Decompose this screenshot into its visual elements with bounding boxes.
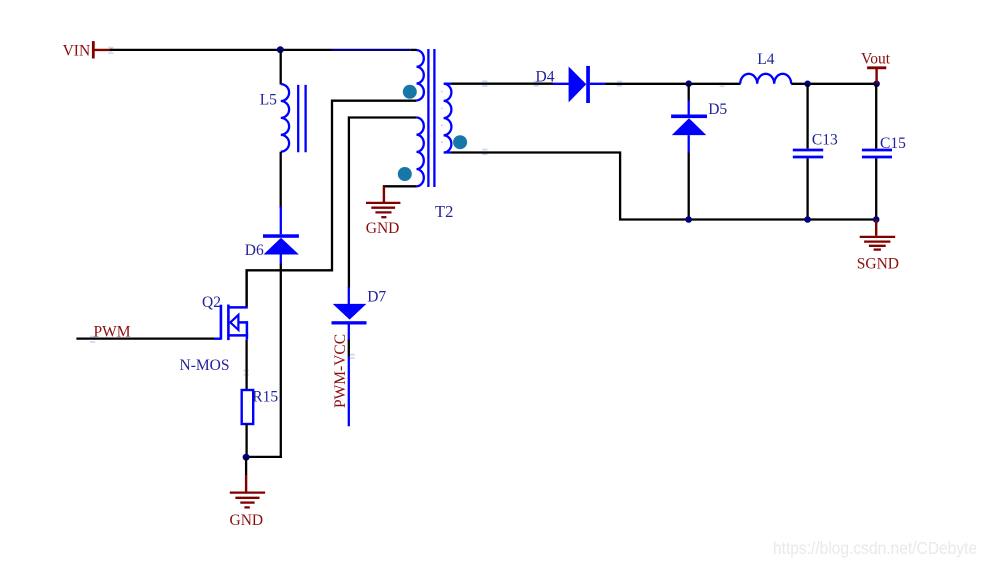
svg-text:R15: R15 bbox=[252, 389, 278, 406]
wire D6 bottom horizontal to junction bbox=[246, 456, 282, 458]
grid marks (faint) bbox=[90, 47, 725, 376]
transformer T2 secondary winding bbox=[444, 84, 452, 153]
svg-text:VIN: VIN bbox=[63, 43, 91, 60]
node Vout junction bbox=[873, 81, 880, 88]
transformer T2 core bbox=[428, 49, 434, 187]
svg-text:Q2: Q2 bbox=[202, 294, 221, 311]
wire D4 to L4 (top rail) bbox=[605, 83, 740, 85]
wire T2 primary bottom bbox=[247, 101, 417, 307]
diode D6 bbox=[245, 206, 299, 265]
wire node A down to L5 bbox=[280, 50, 282, 85]
svg-text:D5: D5 bbox=[708, 101, 727, 118]
svg-text:L4: L4 bbox=[757, 51, 774, 68]
wire node A to T2 primary top (navy overlay) bbox=[332, 49, 411, 51]
node C13 bottom junction bbox=[804, 216, 811, 223]
T2 aux polarity dot bbox=[398, 167, 412, 181]
wire Q2 drain up bbox=[245, 270, 247, 306]
wire C15 bottom bbox=[875, 158, 877, 219]
svg-text:T2: T2 bbox=[435, 202, 453, 221]
wire C13 bottom bbox=[806, 158, 808, 219]
transistor Q2 N-MOS bbox=[180, 294, 249, 374]
ground GND (aux) bbox=[366, 186, 401, 237]
ground GND (Q2 source) bbox=[230, 457, 266, 529]
wire D5 to bottom rail bbox=[688, 153, 690, 220]
node A junction bbox=[277, 46, 284, 53]
port Vout bbox=[861, 50, 891, 84]
svg-text:GND: GND bbox=[366, 220, 400, 237]
ground SGND bbox=[857, 220, 899, 273]
diode D5 bbox=[671, 84, 727, 153]
net stub PWM-VCC (blue) bbox=[348, 357, 350, 427]
node D5 bottom junction bbox=[685, 216, 692, 223]
wire L4 to Vout bbox=[791, 83, 876, 85]
wire C13 bbox=[806, 84, 808, 149]
wire T2 aux bottom to GND bbox=[383, 185, 417, 187]
transformer T2 primary winding bbox=[417, 50, 424, 100]
node SGND junction bbox=[873, 216, 880, 223]
wire D6 anode down to source node bbox=[280, 264, 282, 458]
node D5 top junction bbox=[685, 80, 692, 87]
svg-text:PWM-VCC: PWM-VCC bbox=[332, 334, 349, 408]
wire L5 to D6 bbox=[280, 152, 282, 208]
T2 secondary polarity dot bbox=[453, 135, 467, 149]
wire to T2 primary top bbox=[411, 49, 417, 51]
svg-text:D6: D6 bbox=[245, 242, 264, 259]
T2 primary polarity dot bbox=[403, 85, 417, 99]
wire PWM to Q2 gate bbox=[76, 337, 215, 339]
resistor R15 bbox=[242, 389, 279, 425]
node C13 top junction bbox=[804, 81, 811, 88]
svg-text:SGND: SGND bbox=[857, 256, 899, 273]
inductor L4 bbox=[740, 51, 791, 84]
svg-text:GND: GND bbox=[230, 512, 264, 529]
wire T2 aux top to D7 bbox=[349, 118, 417, 289]
diode D4 bbox=[536, 66, 606, 103]
transformer T2 aux winding bbox=[417, 118, 424, 187]
svg-text:L5: L5 bbox=[260, 92, 277, 109]
svg-text:Vout: Vout bbox=[861, 50, 891, 67]
svg-text:N-MOS: N-MOS bbox=[180, 357, 230, 374]
port VIN bbox=[63, 41, 112, 60]
svg-text:C15: C15 bbox=[880, 135, 906, 152]
inductor L5 bbox=[260, 84, 306, 152]
capacitor C15 bbox=[862, 135, 906, 157]
wire Q2 source down to R15 bbox=[245, 340, 247, 390]
wire T2 secondary top to D4 bbox=[452, 83, 554, 85]
wire R15 to GND node bbox=[245, 424, 247, 458]
diode D7 bbox=[332, 287, 387, 341]
wire C15 bbox=[875, 84, 877, 149]
capacitor C13 bbox=[793, 131, 838, 157]
svg-text:D7: D7 bbox=[367, 288, 386, 305]
svg-text:C13: C13 bbox=[812, 131, 838, 148]
svg-text:https://blog.csdn.net/CDebyte: https://blog.csdn.net/CDebyte bbox=[773, 538, 977, 558]
node source/GND junction bbox=[243, 454, 250, 461]
wire D7 to PWM-VCC (black segment) bbox=[348, 340, 350, 357]
svg-text:D4: D4 bbox=[536, 68, 555, 85]
wire T2 secondary bottom rail bbox=[452, 153, 877, 220]
wire VIN to node A bbox=[110, 49, 332, 51]
